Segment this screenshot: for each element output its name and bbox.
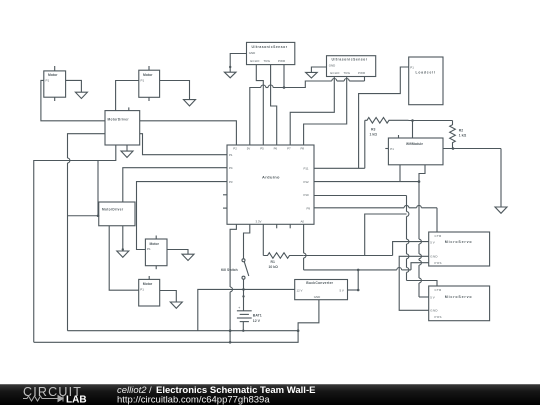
svg-text:Motor: Motor [48,73,58,77]
ground G5 [121,151,133,157]
ground G4 [306,72,318,78]
svg-text:TRG: TRG [264,59,271,63]
wire left bus to MotorDriver2 left pin [68,215,99,217]
wire Arduino pin to kill switch [244,224,250,258]
ground G6 [117,251,129,257]
BuckConverter labels [297,281,344,299]
wire Arduino P4 to MotorDriver2 top [123,168,227,202]
Arduino left stub pins [223,195,227,208]
Loadcell labels [410,65,435,74]
motor M2 [139,66,160,101]
svg-text:P11: P11 [304,166,309,170]
svg-text:LAB: LAB [66,395,87,405]
mcu Arduino [227,145,314,224]
motor M3 label [147,242,160,251]
wire A0 ext line right [304,269,397,271]
svg-text:3.3V: 3.3V [256,219,262,223]
node 5V/A0ext junction [357,269,360,272]
svg-text:P9: P9 [307,206,311,210]
wire MotorDriver1 bottom pin2 to GND bus [34,145,116,342]
footer title text [117,385,315,405]
wire Arduino P10 [314,195,407,197]
wire M4 right to ground [160,291,177,303]
wire P11 riser to R3 lead [364,120,366,168]
wire WModule top pin [412,121,414,139]
wire hop bus over ECHO1 [261,85,266,88]
svg-text:P2: P2 [233,147,237,151]
node dot above ground [122,248,124,250]
svg-text:P6: P6 [274,147,278,151]
wire M1 left pin down to MotorDriver1 [41,80,105,120]
motor M4 [139,276,160,306]
wire hop A0 over R1 line [304,253,306,258]
R1 value label [269,260,279,269]
svg-text:ECHO: ECHO [330,71,340,75]
wire 12V line left corner down [198,289,295,330]
svg-text:R2: R2 [459,129,463,133]
wire to Servo2 5V pin [419,296,429,298]
wire MotorDriver2 bottom pin2 to Motor4 [109,226,139,290]
svg-text:12 V: 12 V [253,319,261,323]
svg-text:TRG: TRG [344,71,351,75]
ground G2 [184,100,196,106]
wire M2 right to ground [160,81,190,100]
node GND bus / battery-minus crossing [229,329,232,332]
svg-text:P1: P1 [410,65,414,69]
node R3/R2/WModule junction [411,119,414,122]
wire WifiModule left pin stub [385,148,388,150]
wire GND bus continues [229,292,231,343]
wire sensor1 GND to ground [230,54,246,73]
wire junction to R2 top [409,120,453,122]
wire hop GND bus over 12V line [230,287,232,292]
battery BAT1 [237,311,252,331]
wire left bus continues [67,163,69,331]
svg-text:GND: GND [314,295,320,299]
wire sensor1 TRG to Arduino P6 [271,65,277,145]
MicroServo1 labels [430,234,472,265]
svg-text:Loadcell: Loadcell [416,71,436,75]
wire P10 to Servo2 CTR [407,281,438,287]
wire Arduino GND pin to bottom bus [230,224,236,287]
wire hop bus over TRG1 [268,85,273,88]
wire Arduino P3 to M3 left pin [137,182,228,250]
motor M1 [44,66,66,101]
wire R1 line right and up [304,214,407,256]
svg-text:P10: P10 [304,193,310,197]
svg-text:P1: P1 [46,79,50,83]
svg-text:Motor: Motor [143,73,153,77]
svg-text:Arduino: Arduino [262,175,280,180]
wire MotorDriver1 left pin2 to left bus [68,134,106,158]
wire WifiModule bottom pinA to P12 line [399,165,401,182]
switch Kill Switch [242,259,249,279]
svg-text:P1: P1 [229,153,233,157]
wire MotorDriver1 right pin2 to Arduino P1 [140,134,227,155]
module MotorDriver1 [105,107,140,145]
motor M2 label [141,73,154,82]
wire Arduino A0 pin down [303,224,305,253]
motor M4 label [140,282,153,291]
UltrasonicSensor2 labels [329,58,368,76]
svg-text:P7: P7 [287,147,291,151]
svg-text:UltrasonicSensor: UltrasonicSensor [252,45,288,49]
module WifiModule [388,135,443,165]
svg-text:P5: P5 [260,147,264,151]
Arduino pin labels [229,147,310,224]
svg-text:PWR: PWR [278,59,285,63]
wire Arduino 3.3V pin down to R1 [262,224,264,255]
R2 value label [459,129,467,138]
svg-text:PWR: PWR [358,71,365,75]
wire R1 branch to servo 5V riser [365,255,393,257]
module BuckConverter [295,280,348,300]
wire A0 continues down [303,258,305,270]
wire Loadcell P1 down-left [359,67,409,168]
wire bus segment to PWR2 [349,80,364,82]
wire sensor2 ECHO to Arduino P7 [290,77,334,146]
wire switch bottom to 12V node [243,279,245,289]
Kill Switch label [221,268,238,272]
wire bus segment to jog [273,81,332,88]
wire hop left bus over GND line [68,158,70,163]
svg-text:5 V: 5 V [340,288,344,292]
ground G7 [182,254,194,260]
node GND bus end [229,341,232,344]
svg-text:12 V: 12 V [297,288,303,292]
svg-text:UltrasonicSensor: UltrasonicSensor [332,58,368,62]
servo MicroServo1 [429,232,490,266]
svg-text:P1: P1 [390,147,394,151]
sensor UltrasonicSensor1 [247,42,295,64]
svg-text:ECHO: ECHO [250,59,260,63]
module MotorDriver2 [99,202,135,226]
svg-text:http://circuitlab.com/c64pp77g: http://circuitlab.com/c64pp77gh839a [117,394,270,405]
wire MotorDriver1 bottom pin to ground [126,145,128,151]
node junction MotorDriver2 pin [97,214,100,217]
node 5V out junction [357,289,360,292]
wire sensor1 ECHO to Arduino P5 [256,65,263,145]
wire Arduino P11 [314,167,365,169]
svg-text:Motor: Motor [150,242,160,246]
wire Arduino P9 [314,205,437,207]
svg-text:WifiModule: WifiModule [406,142,423,146]
wire hop bus over ECHO2 [332,79,337,82]
node battery minus junction [242,330,244,332]
MotorDriver1 label [108,118,130,122]
svg-text:Motor: Motor [143,282,153,286]
svg-text:5 V: 5 V [430,240,434,244]
svg-text:CTR: CTR [435,288,442,292]
wire BuckConverter 5V out [348,289,359,291]
wire bus segment [266,87,268,89]
wire branch down to MotorDriver2 left pin [97,161,99,216]
svg-text:R3: R3 [371,127,375,131]
wire GND long bottom line [34,300,319,343]
wire P12 net vertical to Servo2 5V [419,182,421,297]
motor M1 label [46,73,59,82]
svg-text:1 kΩ: 1 kΩ [459,134,467,138]
node GND net corner junction [297,329,300,332]
module Loadcell [409,57,443,105]
resistor R2 [450,121,456,149]
svg-text:P8: P8 [301,147,305,151]
svg-text:POS: POS [435,315,442,319]
svg-text:P1: P1 [147,247,151,251]
resistor R1 [263,253,303,259]
wire sensor2 PWR stub [364,77,366,82]
wire MotorDriver1 right pin1 to Arduino P2 [140,121,237,145]
svg-text:GND: GND [430,255,438,259]
wire M1 right to ground [66,80,82,92]
svg-text:P12: P12 [304,180,310,184]
node above ground G3 [229,66,231,68]
svg-text:BuckConverter: BuckConverter [306,281,333,285]
resistor R3 [365,118,409,124]
svg-text:10 kΩ: 10 kΩ [269,265,279,269]
wire P10 vertical with hops [407,196,409,281]
wire sensor2 TRG to Arduino P8 [304,77,347,146]
svg-text:MotorDriver: MotorDriver [108,118,130,122]
logo resistor-diode glyph [23,396,63,402]
ground G9 [495,207,507,213]
wire 5V out up [357,270,359,290]
node PWR1 junction [283,86,286,89]
svg-text:R1: R1 [271,260,275,264]
wire hop bus over TRG2 [344,79,349,82]
svg-text:1 kΩ: 1 kΩ [370,132,378,136]
svg-text:P3: P3 [229,180,233,184]
svg-text:GND: GND [249,51,255,55]
wire hop A0ext over servo GND vert [397,268,402,270]
svg-text:+: + [238,305,241,310]
svg-text:BAT1: BAT1 [253,313,262,317]
svg-text:P4: P4 [229,166,233,170]
UltrasonicSensor1 labels [249,45,288,63]
motor M3 [145,236,167,270]
svg-text:5 V: 5 V [430,295,434,299]
wire WifiModule bottom pinB jog [419,165,425,182]
svg-text:POS: POS [435,261,442,265]
sensor UltrasonicSensor2 [327,56,376,77]
svg-text:MicroServo: MicroServo [445,295,473,299]
wire down to ground G9 [500,149,502,208]
ground G1 [75,92,87,98]
Arduino bottom stub pins [277,224,291,228]
svg-text:A0: A0 [301,219,305,223]
MotorDriver2 label [102,208,124,212]
wire A0 ext continue [402,269,411,271]
wire BUC 5V to Servo1 POS [411,263,429,270]
svg-text:P1: P1 [140,288,144,292]
wire 5V bus [250,88,261,146]
wire battery minus line [68,330,299,332]
svg-text:Kill Switch: Kill Switch [221,268,238,272]
node switch/12V junction [242,288,245,291]
WifiModule labels [390,142,423,151]
wire Servo1 5V feed [393,242,429,256]
servo MicroServo2 [429,286,490,321]
ground G8 [170,302,182,308]
MicroServo2 labels [430,288,472,319]
wire Arduino P12 [314,181,419,183]
wire bus segment [337,80,344,82]
svg-text:CTR: CTR [435,234,442,238]
svg-text:5V: 5V [247,147,251,151]
wire M3 right to ground [167,250,188,255]
wire sensor2 GND to ground [311,67,326,72]
ground G3 [224,72,236,78]
wire Servo1 GND to Servo2 GND [399,256,429,310]
wire M2 left pin down to MotorDriver1 top [116,81,139,111]
node P12 junction [418,180,421,183]
wire P9 to Servo1 CTR [436,208,438,232]
BAT1 labels [238,305,262,323]
svg-text:GND: GND [430,309,438,313]
wire MotorDriver2 bottom pin1 to ground [122,226,124,251]
svg-text:GND: GND [329,64,335,68]
R3 value label [370,127,378,136]
node R2 bottom junction [452,147,455,150]
wire sensor1 PWR to 5V bus [283,65,285,88]
svg-text:MicroServo: MicroServo [445,240,473,244]
svg-text:MotorDriver: MotorDriver [102,208,124,212]
wire node to battery plus [243,289,245,310]
svg-text:P1: P1 [141,78,145,82]
wire WifiModule right pin to R2 bottom [443,148,501,150]
node above battery [242,295,244,297]
